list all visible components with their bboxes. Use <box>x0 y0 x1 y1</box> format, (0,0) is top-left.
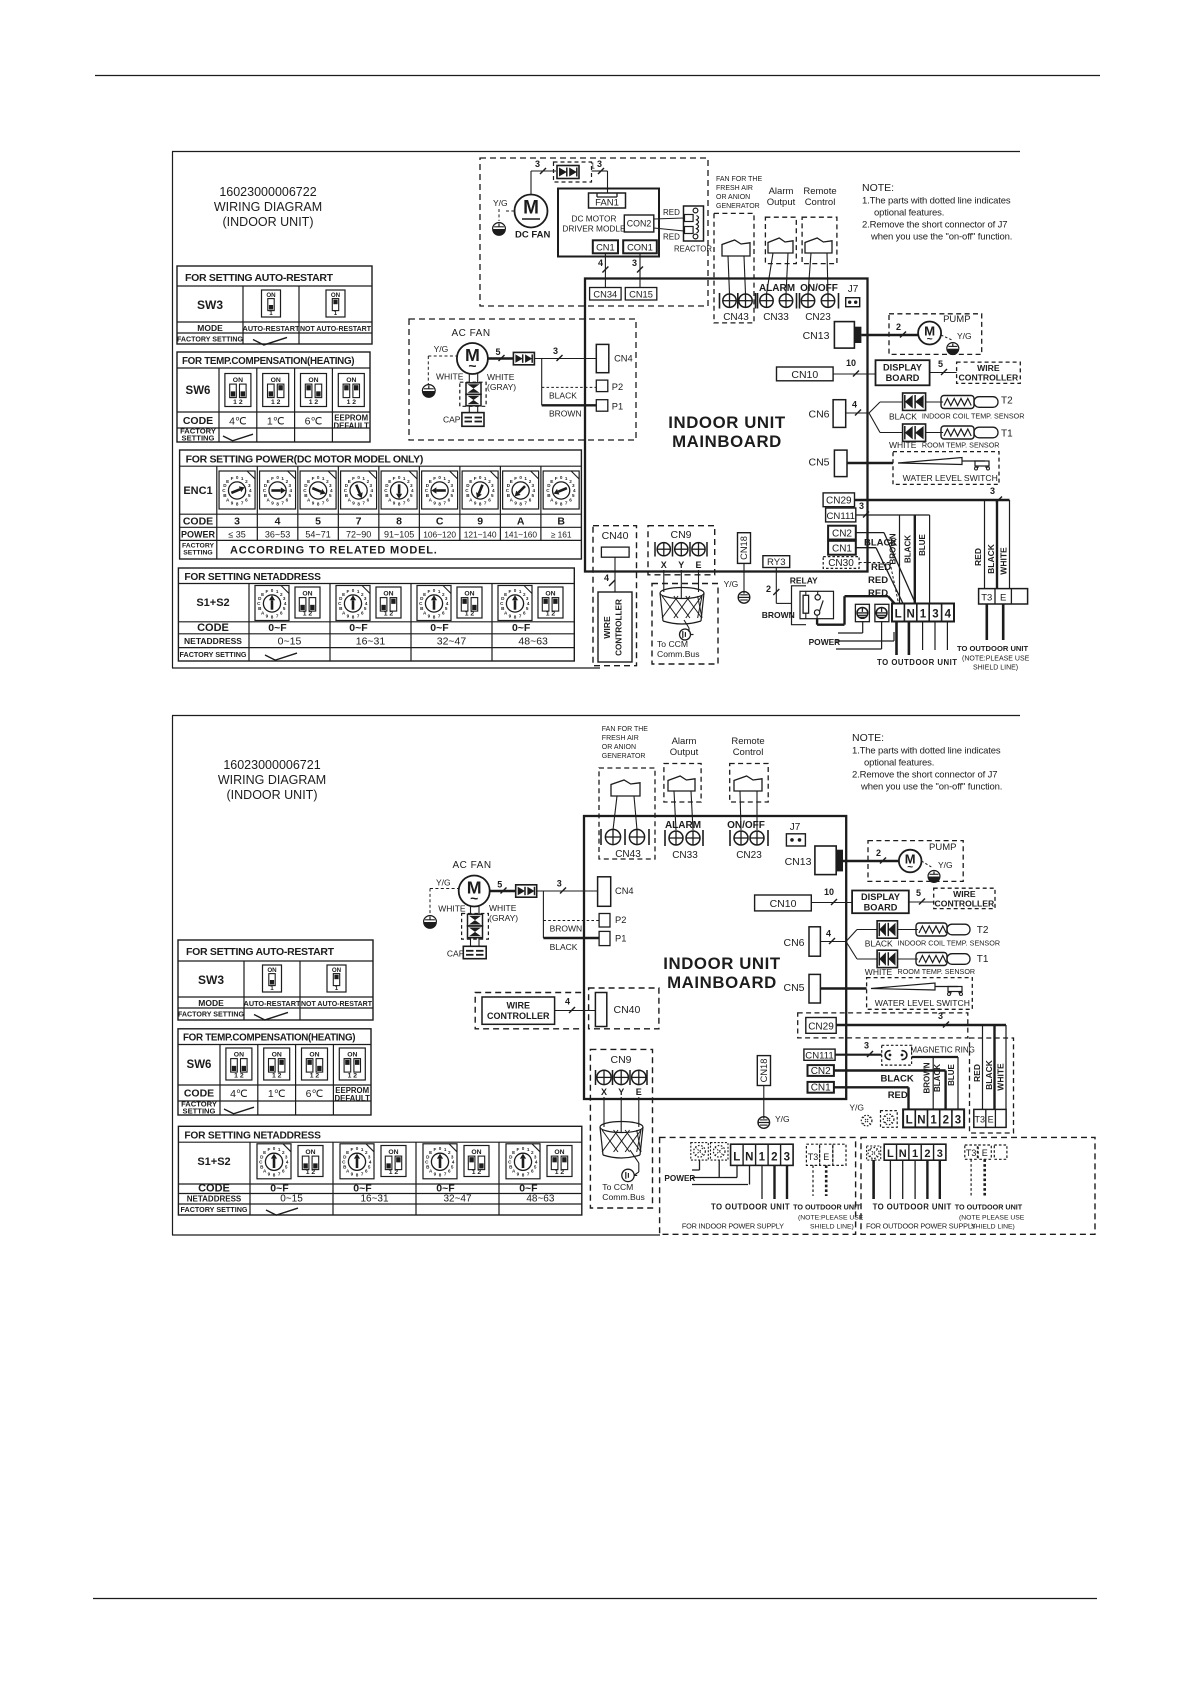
svg-text:72~90: 72~90 <box>346 530 371 540</box>
svg-text:1: 1 <box>524 476 527 481</box>
svg-text:T3: T3 <box>966 1148 977 1158</box>
dashed box FOR OUTDOOR POWER SUPPLY group <box>861 1137 1095 1234</box>
svg-text:F: F <box>555 476 558 481</box>
wire CN30 dotted to terminal <box>859 562 890 564</box>
svg-text:6: 6 <box>365 1169 368 1174</box>
svg-text:L: L <box>887 1148 894 1160</box>
svg-text:~: ~ <box>927 334 933 345</box>
connector CN29 d2 <box>806 1018 836 1034</box>
svg-text:RED: RED <box>888 1090 908 1101</box>
svg-text:7: 7 <box>527 1172 530 1177</box>
svg-text:ROOM TEMP. SENSOR: ROOM TEMP. SENSOR <box>898 967 976 976</box>
switch SW3 position AUTO-RESTART <box>262 290 281 317</box>
wire display board to wire controller d2 <box>909 901 934 903</box>
terminal T3 E indoor power dashed <box>806 1144 819 1165</box>
ground dc fan <box>493 223 506 236</box>
svg-text:1: 1 <box>912 1148 918 1160</box>
svg-text:121~140: 121~140 <box>464 530 497 540</box>
encoder ENC1 dial code C <box>422 471 458 509</box>
svg-text:8: 8 <box>357 501 360 506</box>
wire ac fan to diode pair d2 <box>490 890 516 892</box>
svg-text:5: 5 <box>370 493 373 498</box>
svg-text:2: 2 <box>896 322 901 332</box>
svg-text:1 2: 1 2 <box>309 399 319 406</box>
wire CON1 to CN15 <box>639 253 641 287</box>
ground ac fan d2 <box>424 916 437 929</box>
dashed box CN40 d2 <box>589 988 659 1029</box>
svg-text:6℃: 6℃ <box>306 1088 324 1100</box>
svg-text:1: 1 <box>361 1147 364 1152</box>
svg-text:ENC1: ENC1 <box>183 485 212 497</box>
svg-text:ON: ON <box>471 1149 481 1156</box>
svg-text:1 2: 1 2 <box>384 610 394 617</box>
sensor T2 thermistor d2 <box>898 929 918 931</box>
dashed box CN9 d2 <box>590 1049 652 1208</box>
svg-text:BLACK: BLACK <box>933 1064 942 1092</box>
svg-text:NETADDRESS: NETADDRESS <box>187 1195 242 1204</box>
table FOR TEMP.COMPENSATION(HEATING) <box>177 352 370 442</box>
svg-text:X: X <box>601 1087 607 1097</box>
svg-text:X: X <box>661 560 667 570</box>
svg-text:BOARD: BOARD <box>886 373 920 383</box>
wire CN29 to right d2 <box>836 1024 1006 1026</box>
connector CN15 <box>625 288 657 301</box>
svg-text:FOR TEMP.COMPENSATION(HEATING): FOR TEMP.COMPENSATION(HEATING) <box>182 356 354 367</box>
svg-text:8: 8 <box>398 501 401 506</box>
svg-text:Y/G: Y/G <box>957 331 972 341</box>
svg-text:0: 0 <box>273 1146 276 1151</box>
svg-text:A: A <box>517 516 525 528</box>
svg-text:Y/G: Y/G <box>938 860 953 870</box>
svg-text:5: 5 <box>364 606 367 611</box>
diode pair ac fan d2 <box>516 885 537 897</box>
connector CN4 <box>596 344 609 372</box>
svg-text:MAGNETIC RING: MAGNETIC RING <box>910 1046 974 1055</box>
switch S2 group 4 d2 <box>547 1146 572 1177</box>
svg-text:9: 9 <box>347 613 350 618</box>
svg-text:ON: ON <box>464 590 474 597</box>
switch SW3 position NOT AUTO-RESTART d2 <box>327 965 346 992</box>
svg-text:CN18: CN18 <box>739 536 749 560</box>
svg-text:1: 1 <box>759 1151 766 1163</box>
switch S2 group 1 <box>295 587 320 618</box>
connector CN34 <box>590 288 622 301</box>
svg-text:Y/G: Y/G <box>434 344 449 354</box>
svg-text:F: F <box>352 476 355 481</box>
ground CN18 d2 <box>758 1117 770 1129</box>
encoder S1 dial group 4 d2 <box>506 1144 540 1179</box>
svg-text:(NOTE:PLEASE USE: (NOTE:PLEASE USE <box>962 656 1030 663</box>
svg-text:~: ~ <box>468 358 476 374</box>
svg-text:2: 2 <box>924 1148 930 1160</box>
svg-text:1℃: 1℃ <box>268 1088 286 1100</box>
svg-text:ALARM: ALARM <box>759 283 795 294</box>
svg-text:E: E <box>346 1150 349 1155</box>
ground pump d2 <box>928 871 940 883</box>
svg-text:Y/G: Y/G <box>493 198 508 208</box>
svg-text:E: E <box>504 592 507 597</box>
wire dc fan to diode <box>530 171 532 195</box>
dashed box fan fresh air generator <box>714 213 754 323</box>
wire CN111 three wires <box>856 514 930 516</box>
svg-text:9: 9 <box>474 500 477 505</box>
svg-text:TO OUTDOOR UNIT: TO OUTDOOR UNIT <box>873 1203 952 1212</box>
svg-text:E: E <box>636 1087 642 1097</box>
svg-text:TO OUTDOOR UNIT: TO OUTDOOR UNIT <box>955 1203 1023 1212</box>
svg-text:6: 6 <box>523 610 526 615</box>
svg-text:1 2: 1 2 <box>465 610 475 617</box>
svg-text:CON1: CON1 <box>627 242 653 252</box>
svg-text:1: 1 <box>322 476 325 481</box>
svg-text:36~53: 36~53 <box>265 530 290 540</box>
svg-text:BLACK: BLACK <box>865 939 893 949</box>
water level switch symbol <box>898 458 962 465</box>
svg-text:ON: ON <box>267 967 277 974</box>
svg-text:0: 0 <box>438 475 441 480</box>
svg-text:5: 5 <box>283 606 286 611</box>
svg-text:ON/OFF: ON/OFF <box>727 820 765 831</box>
wire controller to CN40 d2 <box>555 1010 596 1012</box>
wire WHITE vertical d1 <box>1009 500 1011 589</box>
wire E down <box>1002 604 1005 640</box>
svg-text:WHITE: WHITE <box>436 372 464 382</box>
svg-text:9: 9 <box>517 1172 520 1177</box>
svg-text:6: 6 <box>442 610 445 615</box>
svg-text:4: 4 <box>852 400 857 410</box>
svg-text:1: 1 <box>269 310 273 317</box>
sensor T2 thermistor <box>926 401 944 403</box>
water level switch symbol d2 <box>871 983 935 990</box>
svg-text:DISPLAY: DISPLAY <box>883 363 922 373</box>
svg-text:ON/OFF: ON/OFF <box>800 283 838 294</box>
svg-text:4: 4 <box>826 929 831 939</box>
motor DC FAN <box>515 195 548 228</box>
svg-text:FOR SETTING AUTO-RESTART: FOR SETTING AUTO-RESTART <box>185 272 334 284</box>
svg-text:1 2: 1 2 <box>303 610 313 617</box>
svg-text:NOT AUTO-RESTART: NOT AUTO-RESTART <box>301 1001 373 1008</box>
svg-text:CN4: CN4 <box>615 886 634 896</box>
wire ac fan motor down <box>468 373 470 382</box>
svg-text:1 2: 1 2 <box>546 610 556 617</box>
switch SW6 position 1 <box>225 374 251 407</box>
svg-text:7: 7 <box>443 500 446 505</box>
sensor T1 connector <box>903 424 926 441</box>
svg-text:SHIELD LINE): SHIELD LINE) <box>971 1224 1015 1231</box>
svg-text:INDOOR COIL TEMP. SENSOR: INDOOR COIL TEMP. SENSOR <box>898 939 1001 948</box>
svg-text:6: 6 <box>280 610 283 615</box>
wire display board to wire controller <box>930 372 957 374</box>
page top rule <box>95 75 1100 77</box>
wire BLACK vertical d2 <box>993 1025 995 1109</box>
svg-text:F: F <box>393 476 396 481</box>
svg-text:54~71: 54~71 <box>305 530 330 540</box>
dashed box alarm output <box>765 217 796 263</box>
connector CN18 <box>738 533 751 564</box>
svg-text:BLACK: BLACK <box>889 412 917 422</box>
svg-text:WIRE: WIRE <box>507 1001 531 1011</box>
svg-text:F: F <box>433 1147 436 1152</box>
wire CON2 to reactor RED bottom <box>654 228 684 231</box>
motor AC FAN <box>457 343 488 374</box>
svg-text:0: 0 <box>560 475 563 480</box>
svg-text:2: 2 <box>876 848 881 858</box>
svg-text:optional features.: optional features. <box>874 208 944 219</box>
svg-text:ON: ON <box>234 1051 244 1058</box>
svg-text:F: F <box>350 1147 353 1152</box>
switch S2 group 2 <box>376 587 401 618</box>
switch SW6 position 1 d2 <box>226 1048 252 1080</box>
svg-text:141~160: 141~160 <box>504 530 537 540</box>
svg-text:S1+S2: S1+S2 <box>196 597 229 609</box>
terminal T3 E outdoor power dotted <box>965 1145 978 1159</box>
connector CN30 dashed <box>823 557 859 569</box>
svg-text:Y: Y <box>618 1087 624 1097</box>
svg-text:1: 1 <box>519 589 522 594</box>
switch S2 group 3 <box>457 587 482 618</box>
svg-text:8: 8 <box>519 501 522 506</box>
encoder ENC1 dial code 8 <box>381 471 417 509</box>
dashed box to CCM <box>652 584 718 665</box>
svg-text:FOR SETTING POWER(DC MOTOR MOD: FOR SETTING POWER(DC MOTOR MODEL ONLY) <box>186 454 424 466</box>
svg-text:CN1: CN1 <box>596 242 615 252</box>
svg-text:Output: Output <box>670 747 699 758</box>
svg-text:(GRAY): (GRAY) <box>487 382 516 392</box>
svg-text:when you use the "on-off" func: when you use the "on-off" function. <box>860 782 1002 793</box>
label 3 wires dc fan right <box>592 170 608 172</box>
svg-text:CN5: CN5 <box>783 982 804 994</box>
wire CN6 to sensors <box>846 412 869 414</box>
wire CN1 to CN34 <box>604 253 606 287</box>
terminal block L N 1 2 3 indoor power <box>731 1144 794 1165</box>
svg-text:7: 7 <box>438 613 441 618</box>
svg-text:5: 5 <box>329 493 332 498</box>
svg-text:CN40: CN40 <box>602 530 629 542</box>
svg-text:DEFAULT: DEFAULT <box>334 422 370 431</box>
svg-text:TO OUTDOOR UNIT: TO OUTDOOR UNIT <box>957 644 1029 653</box>
terminal screw power L <box>855 604 869 621</box>
svg-text:CN2: CN2 <box>811 1066 831 1077</box>
svg-text:8: 8 <box>317 501 320 506</box>
svg-text:9: 9 <box>266 613 269 618</box>
svg-text:1: 1 <box>270 985 274 992</box>
table FOR SETTING POWER(DC MOTOR MODEL ONLY) <box>180 450 582 559</box>
wire X Y E to magnetic ring <box>663 570 665 592</box>
svg-text:SW3: SW3 <box>197 298 223 312</box>
svg-text:9: 9 <box>428 613 431 618</box>
svg-text:J7: J7 <box>790 822 801 833</box>
ground CN18 <box>738 592 750 604</box>
svg-text:3: 3 <box>784 1151 790 1163</box>
svg-text:1: 1 <box>591 162 596 171</box>
svg-text:0~F: 0~F <box>512 622 531 634</box>
svg-text:3: 3 <box>597 159 602 169</box>
svg-text:F: F <box>514 476 517 481</box>
connector to CCM plug <box>680 629 691 640</box>
svg-text:6: 6 <box>448 1169 451 1174</box>
magnetic ring small d2 <box>882 1045 912 1065</box>
wire CN18 to ground <box>743 563 745 591</box>
svg-text:6: 6 <box>245 497 248 502</box>
dashed box CN29 optional d2 <box>798 1013 968 1038</box>
svg-text:5: 5 <box>491 493 494 498</box>
svg-text:0: 0 <box>352 588 355 593</box>
svg-text:CONTROLLER: CONTROLLER <box>935 899 995 909</box>
svg-text:ON: ON <box>346 377 356 384</box>
svg-text:0~15: 0~15 <box>278 636 302 648</box>
svg-text:SETTING: SETTING <box>183 550 212 557</box>
svg-text:DISPLAY: DISPLAY <box>861 892 900 902</box>
svg-text:Alarm: Alarm <box>672 736 697 747</box>
terminal block L N 1 3 4 <box>892 604 954 622</box>
svg-text:(GRAY): (GRAY) <box>489 913 518 923</box>
wire node down <box>541 359 543 406</box>
svg-text:2: 2 <box>771 1151 777 1163</box>
motor PUMP <box>918 322 941 345</box>
switch SW6 position 2 d2 <box>264 1048 290 1080</box>
svg-text:16~31: 16~31 <box>356 636 386 648</box>
plug alarm output d2 <box>668 776 695 791</box>
svg-text:5: 5 <box>497 880 502 890</box>
svg-text:1: 1 <box>920 609 927 621</box>
svg-text:OR ANION: OR ANION <box>716 194 750 201</box>
dashed box pump optional d2 <box>868 841 963 882</box>
table FOR SETTING NETADDRESS d2 <box>178 1126 581 1215</box>
svg-text:Remote: Remote <box>803 186 836 197</box>
svg-text:CN9: CN9 <box>670 529 691 541</box>
svg-text:9: 9 <box>312 500 315 505</box>
svg-text:1.The parts with dotted line i: 1.The parts with dotted line indicates <box>852 746 1001 757</box>
svg-text:ON: ON <box>272 1051 282 1058</box>
svg-text:when you use the "on-off" func: when you use the "on-off" function. <box>870 232 1012 243</box>
svg-text:9: 9 <box>271 500 274 505</box>
svg-text:8: 8 <box>356 1173 359 1178</box>
svg-text:CN4: CN4 <box>614 354 633 364</box>
svg-text:ON: ON <box>266 292 276 299</box>
connector CN40 d2 <box>595 993 606 1027</box>
svg-text:E: E <box>823 1152 829 1162</box>
svg-text:S1+S2: S1+S2 <box>197 1156 230 1168</box>
svg-text:F: F <box>433 476 436 481</box>
wire T3 E dotted down indoor <box>812 1165 814 1196</box>
svg-text:E: E <box>982 1148 988 1158</box>
svg-text:8: 8 <box>273 1173 276 1178</box>
svg-text:WHITE: WHITE <box>487 372 515 382</box>
svg-text:16023000006722: 16023000006722 <box>219 185 316 199</box>
svg-text:WATER LEVEL SWITCH: WATER LEVEL SWITCH <box>903 473 998 483</box>
svg-text:9: 9 <box>509 613 512 618</box>
svg-text:E: E <box>423 592 426 597</box>
svg-text:ACCORDING TO RELATED MODEL.: ACCORDING TO RELATED MODEL. <box>230 545 438 557</box>
svg-text:NETADDRESS: NETADDRESS <box>184 636 242 646</box>
wire outdoor group down <box>872 1160 875 1199</box>
svg-text:1 2: 1 2 <box>272 1072 282 1079</box>
svg-text:8: 8 <box>438 501 441 506</box>
svg-text:(INDOOR UNIT): (INDOOR UNIT) <box>227 788 318 802</box>
svg-text:WIRING DIAGRAM: WIRING DIAGRAM <box>214 200 322 214</box>
svg-text:5: 5 <box>534 1165 537 1170</box>
box INDOOR UNIT MAINBOARD diagram 1 <box>585 279 868 572</box>
wire plug alarm to CN33 d2 <box>674 791 676 830</box>
svg-text:32~47: 32~47 <box>443 1194 472 1205</box>
connector CN2 d2 <box>808 1065 834 1076</box>
table FOR SETTING NETADDRESS <box>178 568 574 661</box>
plug fan fresh air d2 <box>611 780 640 796</box>
svg-text:DEFAULT: DEFAULT <box>335 1094 371 1103</box>
svg-text:0: 0 <box>317 475 320 480</box>
svg-text:AUTO-RESTART: AUTO-RESTART <box>244 999 301 1008</box>
svg-text:48~63: 48~63 <box>518 636 548 648</box>
encoder S1 dial group 2 <box>336 586 370 621</box>
capacitor CAP <box>462 413 484 427</box>
svg-text:E: E <box>342 592 345 597</box>
svg-text:BROWN: BROWN <box>923 1062 932 1093</box>
wire funnel to plug d2 <box>630 1150 639 1163</box>
connector to CCM plug d2 <box>622 1169 634 1181</box>
svg-text:3: 3 <box>553 346 558 356</box>
svg-text:FACTORY: FACTORY <box>182 543 215 550</box>
svg-text:N: N <box>899 1148 907 1160</box>
svg-text:F: F <box>271 476 274 481</box>
svg-text:ON: ON <box>383 590 393 597</box>
svg-text:F: F <box>267 1147 270 1152</box>
svg-text:Y/G: Y/G <box>849 1103 864 1113</box>
wire ac fan motor down d2 <box>470 906 472 914</box>
dashed box WIRE CONTROLLER right d2 <box>934 888 995 908</box>
svg-text:BLACK: BLACK <box>984 1059 994 1090</box>
svg-text:SHIELD LINE): SHIELD LINE) <box>810 1224 854 1231</box>
svg-text:DRIVER MODLE: DRIVER MODLE <box>562 224 626 234</box>
svg-text:RED: RED <box>868 575 888 586</box>
svg-text:CODE: CODE <box>198 1183 230 1195</box>
svg-text:GENERATOR: GENERATOR <box>716 203 760 210</box>
svg-text:ROOM TEMP. SENSOR: ROOM TEMP. SENSOR <box>922 441 1000 450</box>
svg-text:1 2: 1 2 <box>310 1072 320 1079</box>
box WIRE CONTROLLER vertical <box>598 592 632 662</box>
wire RED vertical d2 <box>982 1025 984 1109</box>
svg-text:PUMP: PUMP <box>929 842 956 853</box>
svg-text:7: 7 <box>444 1172 447 1177</box>
svg-text:FACTORY SETTING: FACTORY SETTING <box>181 1205 248 1214</box>
wire diode to CN4 d2 <box>537 890 598 892</box>
svg-text:TO OUTDOOR UNIT: TO OUTDOOR UNIT <box>711 1203 790 1212</box>
svg-text:WIRE: WIRE <box>602 616 612 639</box>
svg-text:ON: ON <box>309 1051 319 1058</box>
connector P1 d2 <box>599 931 610 945</box>
svg-text:1 2: 1 2 <box>347 399 357 406</box>
terminal screw power N <box>875 604 889 621</box>
svg-text:3: 3 <box>859 501 864 511</box>
svg-text:1: 1 <box>565 476 568 481</box>
svg-text:CONTROLLER: CONTROLLER <box>615 599 624 656</box>
svg-text:BLACK: BLACK <box>864 538 897 549</box>
wire WHITE vertical d2 <box>1005 1025 1007 1109</box>
dashed box cap diodes <box>460 382 486 406</box>
svg-text:1 2: 1 2 <box>233 399 243 406</box>
svg-text:T2: T2 <box>1001 396 1013 407</box>
svg-text:1: 1 <box>930 1114 937 1126</box>
sensor T1 thermistor d2 <box>898 958 918 960</box>
svg-text:T2: T2 <box>977 925 989 936</box>
table FOR SETTING AUTO-RESTART d2 <box>178 940 373 1020</box>
svg-text:3: 3 <box>938 1011 943 1021</box>
wire indoor 1 2 3 down <box>761 1165 763 1199</box>
box DISPLAY BOARD <box>876 360 930 385</box>
svg-text:WIRE: WIRE <box>953 889 976 899</box>
svg-text:≥ 161: ≥ 161 <box>551 530 572 540</box>
svg-text:To CCM: To CCM <box>657 639 688 649</box>
svg-text:5: 5 <box>368 1165 371 1170</box>
svg-text:CN40: CN40 <box>614 1004 641 1016</box>
